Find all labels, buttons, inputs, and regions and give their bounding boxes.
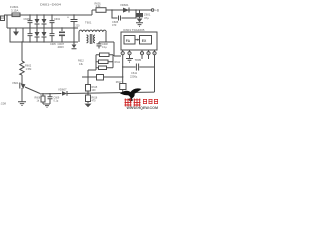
svg-text:+: + <box>67 16 69 20</box>
svg-text:473: 473 <box>112 23 117 27</box>
svg-text:1.5M: 1.5M <box>26 67 32 71</box>
svg-text:100: 100 <box>92 89 97 92</box>
svg-text:AC: AC <box>1 16 5 20</box>
svg-text:D601~D604: D601~D604 <box>40 3 61 7</box>
svg-text:C606: C606 <box>24 18 31 21</box>
svg-text:VD607: VD607 <box>58 88 67 92</box>
svg-text:0.1µ: 0.1µ <box>102 46 107 49</box>
svg-text:470: 470 <box>92 100 97 103</box>
svg-text:EX: EX <box>142 39 147 43</box>
svg-text:+B: +B <box>155 9 159 13</box>
svg-text:IC601 TDA4605: IC601 TDA4605 <box>123 28 145 32</box>
svg-text:47µ: 47µ <box>144 16 149 20</box>
svg-text:FA: FA <box>126 39 131 43</box>
svg-text:C611: C611 <box>131 71 138 75</box>
svg-text:WWW.HQEW.COM: WWW.HQEW.COM <box>127 106 159 110</box>
svg-text:7805: 7805 <box>135 58 142 62</box>
svg-text:3.3k: 3.3k <box>96 4 102 8</box>
svg-text:C602: C602 <box>54 18 61 21</box>
svg-text:.C08: .C08 <box>0 102 6 106</box>
svg-text:400V: 400V <box>58 45 65 49</box>
svg-text:0.1µ: 0.1µ <box>54 100 59 103</box>
svg-text:R611: R611 <box>115 61 121 64</box>
svg-text:3.15A: 3.15A <box>11 9 18 13</box>
svg-text:220: 220 <box>76 25 81 28</box>
svg-text:C605: C605 <box>50 43 56 46</box>
svg-text:T601: T601 <box>85 21 92 25</box>
svg-text:VD601: VD601 <box>120 3 129 7</box>
svg-text:R602: R602 <box>25 64 32 68</box>
svg-text:R617: R617 <box>116 81 122 84</box>
svg-text:V601: V601 <box>12 81 19 85</box>
svg-text:2200µ: 2200µ <box>130 75 138 79</box>
